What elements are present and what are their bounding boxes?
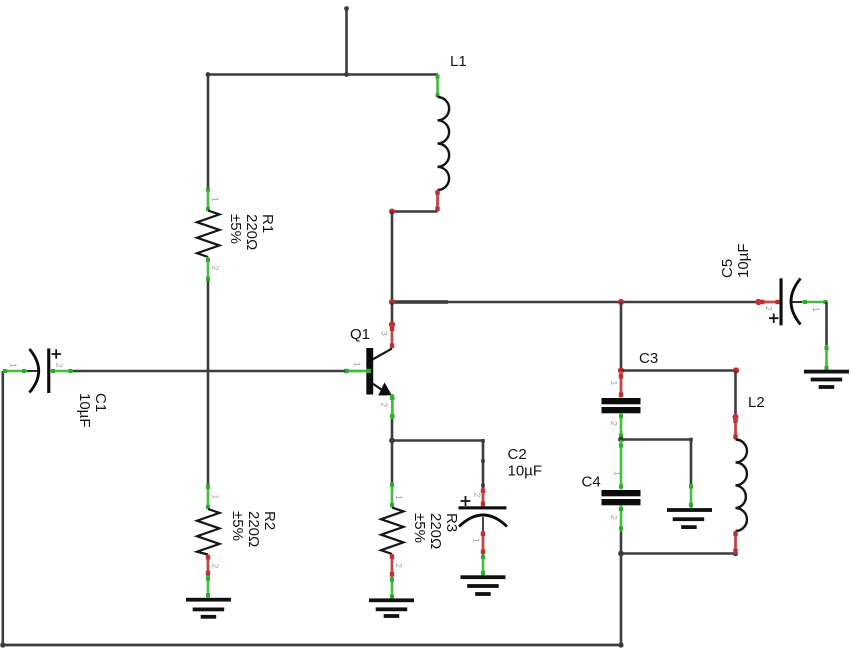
svg-text:R1: R1 bbox=[259, 214, 276, 233]
R3 value label bbox=[411, 513, 460, 549]
C5 curved plate bbox=[791, 279, 801, 325]
R3 pin 1 (green) bbox=[391, 483, 394, 508]
svg-text:220Ω: 220Ω bbox=[243, 214, 260, 250]
svg-text:C1: C1 bbox=[92, 393, 109, 412]
C1 straight plate bbox=[47, 349, 50, 394]
R2 zigzag body bbox=[197, 509, 220, 555]
C1 stem to curved plate bbox=[27, 370, 38, 372]
R2 pin 1 (green) bbox=[207, 485, 210, 510]
svg-text:2: 2 bbox=[764, 306, 774, 311]
wire mid ground stub vertical bbox=[690, 440, 693, 486]
R1 value label bbox=[227, 214, 276, 250]
Q1 base bar bbox=[366, 348, 373, 395]
node red dot at L2 top corner bbox=[733, 367, 739, 373]
node dark dot L2 bottom corner bbox=[733, 551, 738, 556]
node red dot at C3 top junction bbox=[618, 367, 624, 373]
Q1 collector pin 3 (red) bbox=[391, 326, 394, 348]
node top-left corner dot bbox=[206, 72, 211, 77]
C2 plus sign bbox=[461, 496, 471, 506]
wire C3 top to L2 top bbox=[621, 369, 736, 372]
C5 value label bbox=[719, 244, 752, 279]
svg-text:Q1: Q1 bbox=[350, 326, 370, 343]
svg-text:C5: C5 bbox=[719, 259, 736, 278]
C2 straight plate bbox=[459, 506, 507, 509]
capacitor C2 bbox=[459, 439, 543, 555]
svg-text:L1: L1 bbox=[450, 53, 467, 70]
svg-text:±5%: ±5% bbox=[227, 214, 244, 244]
wire top stub vertical bbox=[345, 7, 348, 75]
ground pin mid stub (green) bbox=[690, 484, 693, 508]
svg-text:C2: C2 bbox=[508, 446, 527, 463]
svg-text:220Ω: 220Ω bbox=[427, 513, 444, 549]
svg-text:2: 2 bbox=[211, 564, 221, 569]
svg-text:1: 1 bbox=[472, 538, 482, 543]
wire main horizontal net (thick part) bbox=[392, 300, 448, 304]
ground under C2 bbox=[461, 575, 506, 596]
Q1 emitter arrow bbox=[378, 382, 392, 395]
node red dot at collector junction bbox=[389, 299, 395, 305]
ground pin below C2 (green) bbox=[482, 555, 485, 577]
svg-text:R3: R3 bbox=[443, 513, 460, 532]
wire junction to Q1 collector pin bbox=[391, 302, 394, 325]
wire main horizontal net to C5 bbox=[448, 301, 759, 304]
svg-text:3: 3 bbox=[380, 331, 390, 336]
C2 pin 2 (red) bbox=[482, 488, 485, 507]
node top stub end dot bbox=[344, 6, 349, 11]
svg-text:2: 2 bbox=[394, 563, 404, 568]
svg-text:±5%: ±5% bbox=[229, 511, 246, 541]
R3 pin 2 (red) bbox=[391, 554, 394, 577]
svg-text:10µF: 10µF bbox=[76, 393, 93, 428]
svg-text:1: 1 bbox=[211, 495, 221, 500]
C4 plates bbox=[602, 490, 641, 496]
node junction dot at stub bbox=[344, 72, 349, 77]
node red dot at C3 branch junction bbox=[618, 299, 624, 305]
wire C1 to Q1 base bbox=[73, 370, 345, 373]
C3 pin 1 (red) bbox=[620, 371, 623, 398]
inductor L1 bbox=[435, 53, 466, 212]
wire C5 to ground corner bbox=[825, 302, 828, 346]
node red dot L1 wire corner bbox=[389, 209, 395, 215]
wire bottom rail bbox=[3, 644, 621, 647]
svg-text:1: 1 bbox=[609, 381, 619, 386]
svg-text:R2: R2 bbox=[261, 511, 278, 530]
ground pin below R3 (green) bbox=[391, 577, 394, 600]
R2 pin 2 (red) bbox=[207, 555, 210, 577]
inductor L2 bbox=[733, 371, 765, 555]
resistor R2 bbox=[197, 485, 278, 577]
R1 pin 2 (green) bbox=[207, 257, 210, 281]
wire C4 bottom to lower junction bbox=[620, 532, 623, 555]
svg-text:2: 2 bbox=[473, 493, 483, 498]
C2 plate stem bbox=[482, 517, 484, 531]
C2 pin 1 (red) bbox=[482, 531, 485, 555]
wire emitter junction to C2 bbox=[392, 439, 483, 442]
C5 plus sign bbox=[769, 314, 779, 324]
node red dot at L2 pin 1 bbox=[733, 414, 739, 420]
R3 zigzag body bbox=[381, 508, 404, 555]
ground under R3 bbox=[369, 598, 414, 617]
svg-text:220Ω: 220Ω bbox=[245, 511, 262, 547]
node bottom left corner dot bbox=[0, 642, 5, 647]
L2 pin 2 (red) bbox=[734, 531, 737, 554]
C5 straight plate bbox=[780, 278, 783, 325]
R2 value label bbox=[229, 511, 278, 547]
node dark dot emitter junction bbox=[389, 438, 395, 444]
wire collector branch vertical bbox=[391, 212, 394, 303]
L2 pin 1 (red) bbox=[734, 417, 737, 440]
ground under R2 bbox=[186, 598, 231, 619]
wire L1 bottom to collector branch bbox=[392, 210, 438, 213]
wire lower junction to L2 bottom bbox=[621, 552, 736, 555]
C5 pin 1 (green) bbox=[802, 301, 828, 304]
svg-text:2: 2 bbox=[211, 266, 221, 271]
node bottom right corner dot bbox=[618, 642, 623, 647]
C1 value label bbox=[76, 393, 109, 428]
Q1 emitter pin 2 (green) bbox=[391, 394, 394, 419]
svg-text:1: 1 bbox=[211, 197, 221, 202]
node dark dot C3/C4 junction bbox=[618, 437, 624, 443]
C1 curved plate bbox=[29, 349, 38, 393]
C1 plus sign bbox=[52, 349, 62, 359]
svg-text:1: 1 bbox=[9, 363, 19, 368]
Q1 base pin 1 (green) bbox=[345, 370, 370, 373]
wire emitter down to junction bbox=[391, 419, 394, 441]
resistor R1 bbox=[197, 188, 276, 282]
wire lower junction down to bottom rail bbox=[620, 554, 623, 646]
L1 pin 2 (red) bbox=[436, 190, 439, 212]
C5 stem from curved plate bbox=[791, 301, 802, 303]
L2 top wire bbox=[734, 371, 737, 418]
R1 pin 1 (green) bbox=[207, 188, 210, 211]
C3 plates bbox=[602, 398, 641, 404]
ground under C5 bbox=[804, 370, 849, 389]
node red dot at C5 pin junction bbox=[755, 299, 761, 305]
wire C3 branch vertical from main net bbox=[620, 302, 623, 371]
svg-text:C4: C4 bbox=[582, 474, 601, 491]
capacitor C4 bbox=[582, 440, 641, 532]
svg-text:1: 1 bbox=[394, 495, 404, 500]
wire left vertical feedback bbox=[1, 371, 4, 645]
node red dot above collector pin bbox=[389, 321, 395, 327]
resistor R3 bbox=[381, 483, 460, 578]
svg-text:1: 1 bbox=[353, 362, 363, 367]
svg-text:±5%: ±5% bbox=[411, 513, 428, 543]
L1 pin 1 (green) bbox=[436, 75, 439, 98]
L2 coil body bbox=[736, 440, 747, 532]
svg-text:10µF: 10µF bbox=[508, 462, 543, 479]
wire emitter junction down to R3 bbox=[391, 441, 394, 484]
L1 coil body bbox=[438, 97, 450, 190]
wire left branch down to R1 bbox=[207, 75, 210, 189]
ground pin below R2 (green) bbox=[207, 576, 210, 599]
wire top horizontal rail bbox=[208, 73, 438, 76]
svg-text:2: 2 bbox=[380, 403, 390, 408]
C1 pin 2 (green) bbox=[50, 370, 73, 373]
ground mid-right bbox=[667, 508, 712, 529]
svg-text:C3: C3 bbox=[639, 350, 658, 367]
C2 top wire from junction bbox=[482, 441, 485, 489]
C4 pin 1 (green) bbox=[620, 440, 623, 490]
wire R1 bottom to R2 top bbox=[207, 281, 210, 485]
C1 pin 1 (green) bbox=[3, 370, 27, 373]
svg-text:2: 2 bbox=[55, 363, 65, 368]
svg-text:2: 2 bbox=[609, 515, 619, 520]
C4 pin 2 (green) bbox=[620, 506, 623, 532]
ground pin below C5 (green) bbox=[825, 345, 828, 372]
C5 pin 2 (red) bbox=[759, 301, 782, 304]
capacitor C5 bbox=[719, 244, 828, 326]
C2 curved plate bbox=[459, 515, 507, 527]
R1 zigzag body bbox=[197, 211, 220, 258]
svg-text:10µF: 10µF bbox=[735, 244, 752, 279]
wire C3/C4 junction to mid ground stub bbox=[621, 438, 691, 441]
Q1 emitter diagonal bbox=[373, 384, 387, 393]
node dark dot C4/L2 junction bbox=[618, 551, 624, 557]
capacitor C3 bbox=[602, 371, 641, 439]
svg-text:1: 1 bbox=[811, 307, 821, 312]
svg-text:2: 2 bbox=[609, 421, 619, 426]
svg-text:1: 1 bbox=[613, 471, 623, 476]
capacitor C1 bbox=[3, 349, 109, 428]
svg-text:L2: L2 bbox=[748, 394, 765, 411]
transistor Q1 bbox=[344, 326, 394, 419]
C3 pin 2 (green) bbox=[620, 414, 623, 439]
Q1 collector diagonal bbox=[373, 349, 393, 360]
